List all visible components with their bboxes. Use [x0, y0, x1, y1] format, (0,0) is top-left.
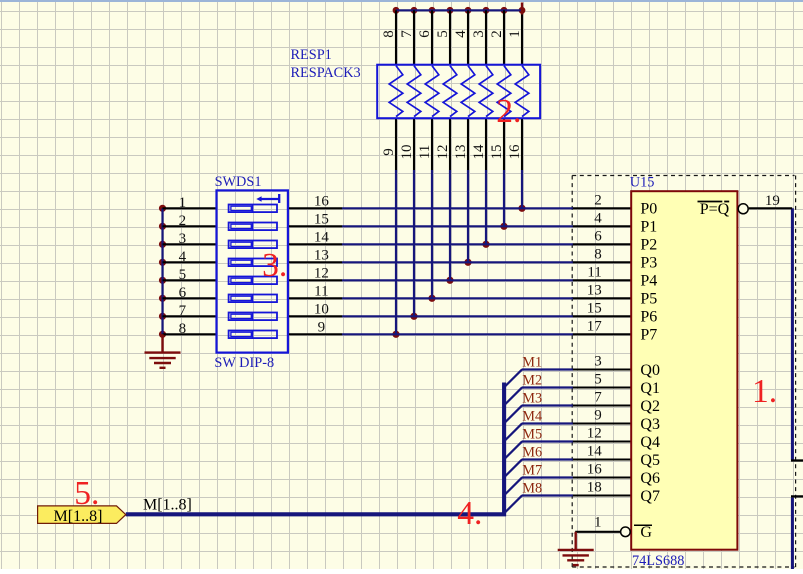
svg-text:P=Q: P=Q	[700, 201, 730, 218]
svg-text:8: 8	[381, 30, 397, 38]
svg-text:18: 18	[587, 480, 602, 496]
svg-text:74LS688: 74LS688	[632, 553, 684, 569]
svg-text:14: 14	[471, 144, 487, 160]
svg-text:Q7: Q7	[640, 488, 660, 505]
svg-text:P2: P2	[640, 237, 657, 254]
svg-text:M6: M6	[522, 445, 542, 461]
svg-text:3: 3	[179, 231, 187, 247]
svg-text:4: 4	[179, 249, 187, 265]
svg-text:12: 12	[587, 426, 602, 442]
svg-text:Q6: Q6	[640, 470, 660, 487]
svg-text:9: 9	[381, 148, 397, 156]
svg-text:SW DIP-8: SW DIP-8	[214, 355, 274, 371]
svg-text:15: 15	[587, 301, 602, 317]
svg-text:9: 9	[318, 320, 326, 336]
svg-text:12: 12	[314, 266, 329, 282]
svg-text:10: 10	[314, 302, 329, 318]
svg-text:4.: 4.	[457, 495, 482, 532]
svg-text:13: 13	[453, 145, 469, 160]
svg-text:M4: M4	[522, 409, 542, 425]
svg-text:Q0: Q0	[640, 362, 660, 379]
svg-text:7: 7	[594, 390, 602, 406]
svg-text:8: 8	[179, 321, 187, 337]
svg-text:5: 5	[435, 30, 451, 38]
svg-text:Q4: Q4	[640, 434, 660, 451]
svg-text:15: 15	[489, 145, 505, 160]
svg-text:16: 16	[314, 194, 330, 210]
svg-text:6: 6	[417, 30, 433, 38]
svg-text:7: 7	[399, 30, 415, 38]
svg-text:P4: P4	[640, 273, 657, 290]
svg-text:2: 2	[179, 213, 187, 229]
svg-text:4: 4	[453, 30, 469, 38]
svg-text:P7: P7	[640, 327, 657, 344]
svg-text:19: 19	[765, 193, 780, 209]
svg-text:Q5: Q5	[640, 452, 660, 469]
svg-text:G: G	[640, 524, 652, 541]
svg-text:Q3: Q3	[640, 416, 660, 433]
svg-text:P5: P5	[640, 291, 657, 308]
svg-text:7: 7	[179, 303, 187, 319]
svg-text:1: 1	[594, 515, 602, 531]
svg-text:15: 15	[314, 212, 329, 228]
svg-text:4: 4	[594, 211, 602, 227]
svg-text:M3: M3	[522, 391, 542, 407]
svg-text:2.: 2.	[496, 93, 521, 130]
svg-text:M1: M1	[522, 355, 542, 371]
svg-text:M2: M2	[522, 373, 542, 389]
svg-text:Q1: Q1	[640, 380, 660, 397]
svg-text:5: 5	[594, 372, 602, 388]
svg-text:RESP1: RESP1	[291, 47, 332, 63]
svg-text:3: 3	[471, 30, 487, 38]
svg-text:13: 13	[587, 283, 602, 299]
svg-text:1.: 1.	[752, 373, 777, 410]
svg-text:17: 17	[587, 319, 603, 335]
svg-text:8: 8	[594, 247, 602, 263]
svg-text:SWDS1: SWDS1	[215, 174, 262, 190]
svg-text:2: 2	[594, 193, 602, 209]
svg-text:9: 9	[594, 408, 602, 424]
svg-text:Q2: Q2	[640, 398, 660, 415]
svg-text:P0: P0	[640, 201, 657, 218]
svg-text:16: 16	[587, 462, 603, 478]
svg-text:14: 14	[314, 230, 330, 246]
svg-text:16: 16	[507, 144, 523, 160]
svg-text:11: 11	[587, 265, 601, 281]
svg-text:11: 11	[314, 284, 328, 300]
svg-text:1: 1	[507, 30, 523, 38]
svg-text:U15: U15	[630, 175, 655, 191]
svg-text:5: 5	[179, 267, 187, 283]
svg-text:M5: M5	[522, 427, 542, 443]
svg-text:13: 13	[314, 248, 329, 264]
svg-text:M[1..8]: M[1..8]	[143, 497, 192, 514]
svg-text:P1: P1	[640, 219, 657, 236]
svg-text:2: 2	[489, 30, 505, 38]
svg-text:3.: 3.	[262, 247, 287, 284]
svg-text:M7: M7	[522, 463, 542, 479]
svg-text:RESPACK3: RESPACK3	[291, 65, 361, 81]
svg-text:P6: P6	[640, 309, 657, 326]
svg-text:12: 12	[435, 145, 451, 160]
svg-text:1: 1	[179, 195, 187, 211]
svg-text:3: 3	[594, 354, 602, 370]
svg-text:5.: 5.	[74, 475, 99, 512]
svg-text:6: 6	[179, 285, 187, 301]
svg-text:14: 14	[587, 444, 603, 460]
svg-text:11: 11	[417, 145, 433, 159]
svg-text:P3: P3	[640, 255, 657, 272]
svg-text:10: 10	[399, 145, 415, 160]
svg-text:M8: M8	[522, 481, 542, 497]
svg-text:6: 6	[594, 229, 602, 245]
